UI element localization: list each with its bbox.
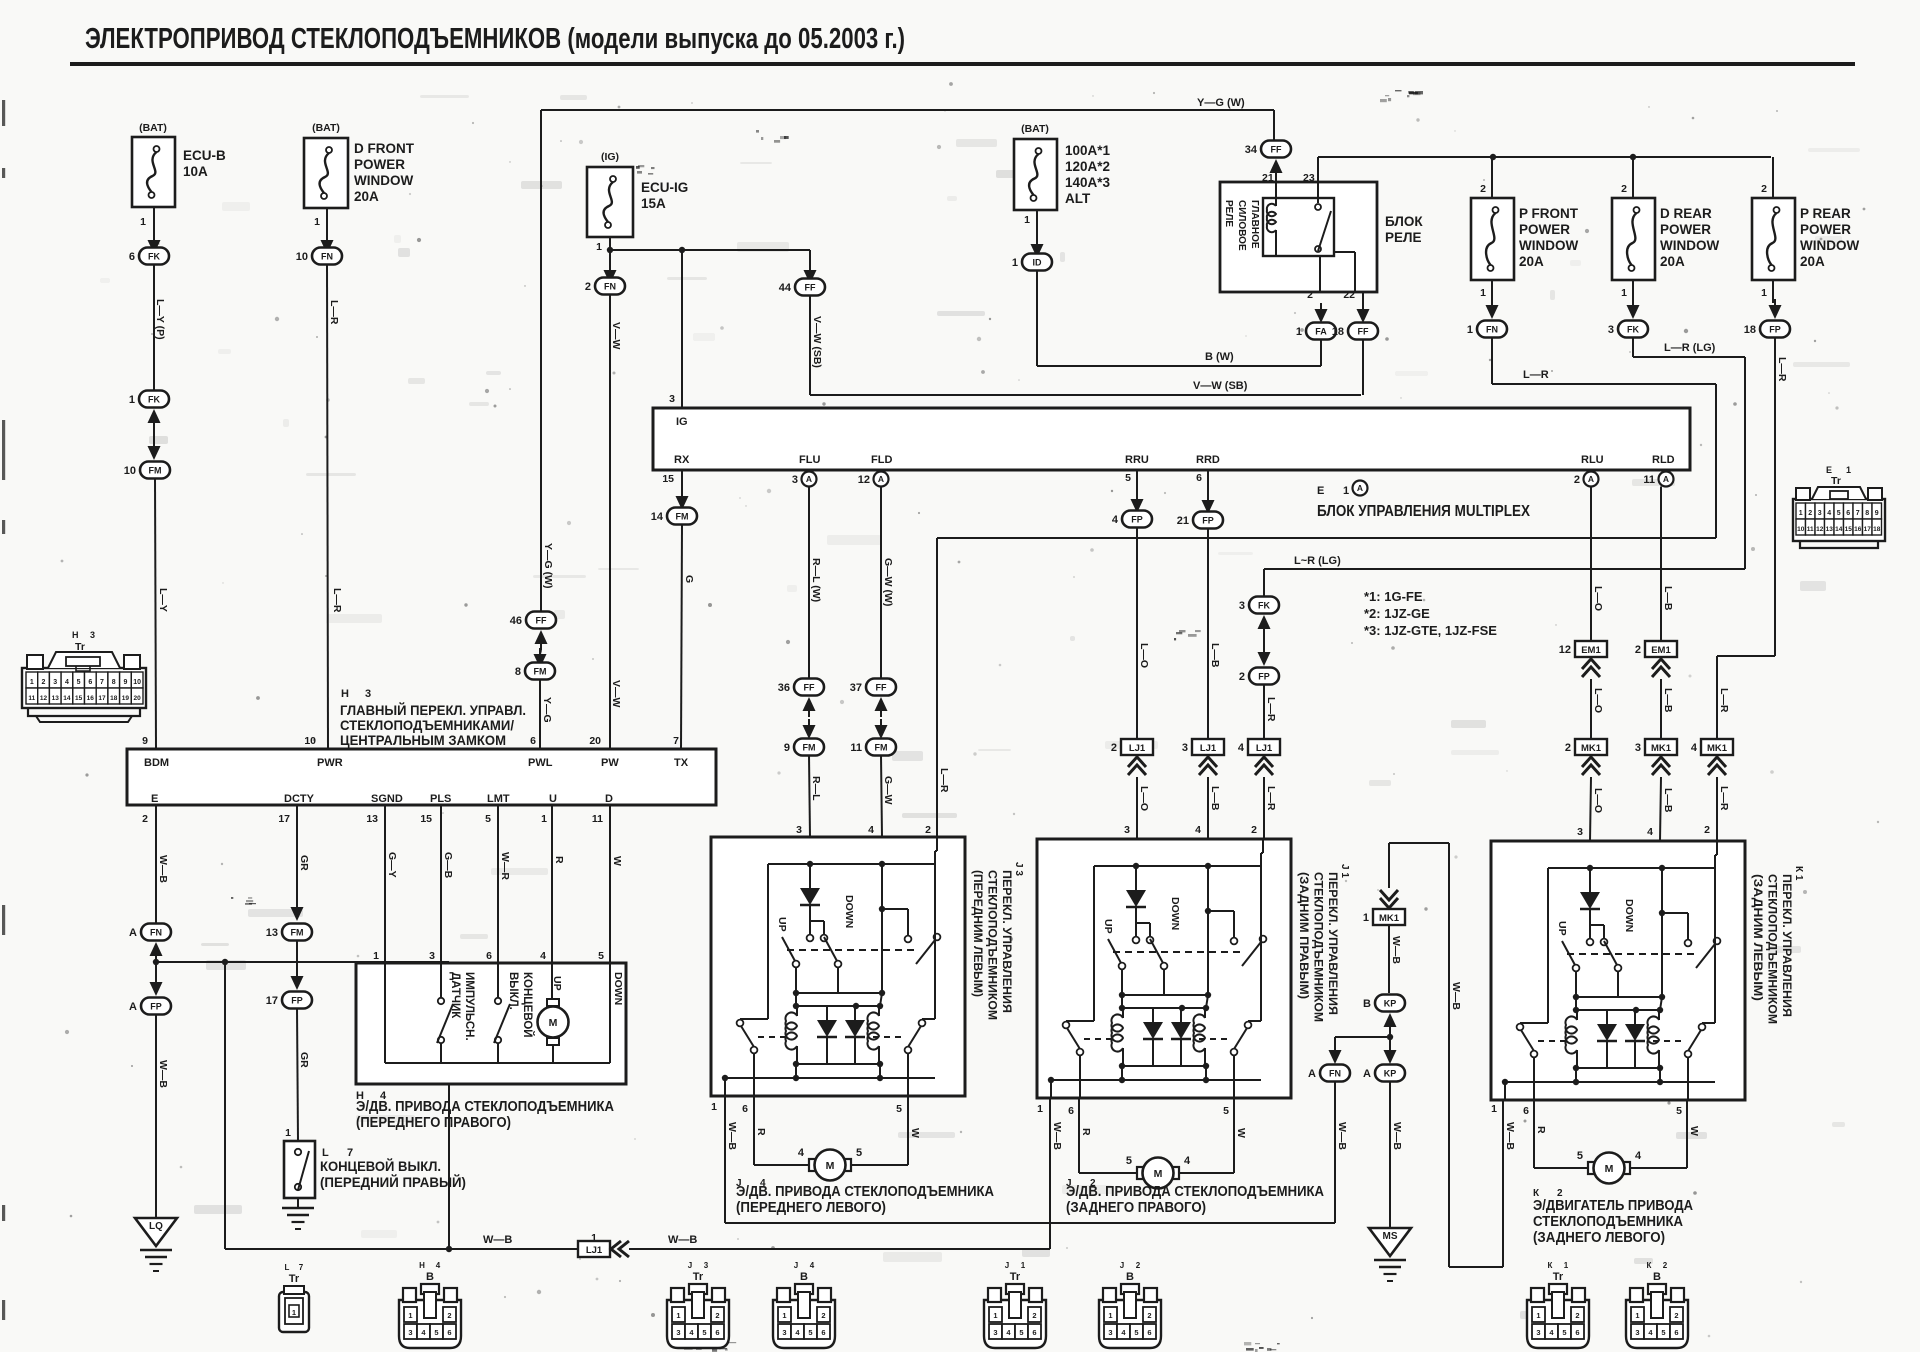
- svg-text:1: 1: [711, 1101, 717, 1113]
- svg-text:EM1: EM1: [1581, 645, 1601, 656]
- chevrons below 2 EM1: [1652, 659, 1670, 677]
- label RL switch vertical: [1751, 866, 1804, 1024]
- svg-text:A: A: [1588, 474, 1594, 484]
- svg-text:1: 1: [782, 1311, 786, 1320]
- arrow below B KP: [1384, 1013, 1397, 1033]
- wire L-R to RL switch pin 2: [1704, 777, 1730, 841]
- connector oval 36 FF: [778, 679, 824, 696]
- svg-text:Tr: Tr: [1553, 1271, 1564, 1283]
- svg-text:FF: FF: [536, 616, 547, 626]
- rear right window switch block: [1037, 839, 1291, 1098]
- svg-text:12: 12: [40, 695, 48, 702]
- svg-text:A: A: [1663, 474, 1669, 484]
- svg-text:FN: FN: [321, 252, 333, 262]
- wire L-R (LG) upper: [1633, 338, 1745, 358]
- svg-text:FA: FA: [1315, 327, 1327, 337]
- svg-text:14: 14: [1835, 526, 1843, 533]
- connector oval 10 FN: [296, 248, 342, 265]
- svg-text:ДАТЧИК: ДАТЧИК: [449, 972, 461, 1019]
- svg-text:3: 3: [1124, 824, 1130, 836]
- svg-text:5: 5: [1134, 1328, 1138, 1337]
- svg-text:1: 1: [1108, 1311, 1112, 1320]
- svg-text:J: J: [1005, 1261, 1009, 1270]
- svg-text:2: 2: [142, 813, 148, 825]
- svg-text:L—R: L—R: [1718, 688, 1730, 713]
- svg-text:POWER: POWER: [354, 157, 405, 172]
- arrow into 18 FF: [1357, 292, 1370, 323]
- svg-text:L—R: L—R: [1265, 697, 1277, 722]
- connector drawing H 3 Tr: [22, 630, 146, 722]
- multiplex pin FLU 3A: [792, 470, 817, 487]
- label FL motor: [736, 1178, 994, 1216]
- wire L-B to RR switch pin 4: [1195, 777, 1221, 839]
- svg-text:13: 13: [52, 695, 60, 702]
- wire 18FF to V-W (SB): [1362, 340, 1364, 396]
- svg-text:FP: FP: [1131, 515, 1143, 525]
- svg-text:18: 18: [110, 695, 118, 702]
- connector oval 17 FP: [266, 992, 312, 1009]
- wire B (W): [1037, 351, 1321, 366]
- svg-text:RLD: RLD: [1652, 454, 1675, 466]
- svg-text:8: 8: [1865, 510, 1869, 517]
- svg-text:L—R: L—R: [328, 300, 340, 325]
- connector drawing K1 Tr: [1527, 1261, 1589, 1348]
- limit switch front right: [284, 1141, 315, 1198]
- connector box 3 MK1: [1635, 739, 1677, 755]
- arrow into 14 FM: [676, 490, 689, 510]
- svg-text:M: M: [549, 1017, 558, 1029]
- svg-text:ПЕРЕКЛ. УПРАВЛЕНИЯ: ПЕРЕКЛ. УПРАВЛЕНИЯ: [1326, 872, 1340, 1015]
- arrow into 9 FM: [803, 717, 816, 739]
- svg-text:5: 5: [77, 679, 81, 686]
- svg-text:2: 2: [1635, 644, 1641, 656]
- svg-text:3: 3: [1536, 1328, 1540, 1337]
- svg-text:R—L: R—L: [810, 776, 822, 801]
- connector box 4 MK1: [1691, 739, 1733, 755]
- svg-text:1: 1: [596, 241, 602, 253]
- arrow into 2 FP: [1258, 646, 1271, 666]
- wire W-B rail left: [225, 1234, 578, 1252]
- svg-text:3: 3: [53, 679, 57, 686]
- svg-text:6: 6: [486, 950, 492, 962]
- arrow into 8 FM: [534, 648, 547, 668]
- connector oval 18 FP: [1744, 321, 1790, 338]
- svg-text:17: 17: [98, 695, 106, 702]
- wire 1FK to 10FM: [153, 429, 155, 446]
- label BLOK RELE: [1385, 214, 1423, 245]
- svg-text:W—B: W—B: [1051, 1122, 1063, 1150]
- label H4 motor block: [356, 1090, 614, 1131]
- master switch bottom pin numbers: [142, 813, 603, 825]
- svg-text:GR: GR: [298, 1052, 310, 1068]
- svg-text:WINDOW: WINDOW: [1660, 238, 1719, 253]
- label FL switch vertical: [971, 862, 1024, 1020]
- wire G-Y SGND: [373, 805, 398, 963]
- svg-text:FM: FM: [149, 466, 162, 476]
- svg-text:140A*3: 140A*3: [1065, 175, 1111, 190]
- wire W to RL pin 5: [1631, 1100, 1700, 1168]
- wire IG pin 3 of multiplex: [669, 250, 682, 408]
- connector oval 4 FP: [1112, 511, 1152, 528]
- svg-text:20: 20: [133, 695, 141, 702]
- wire to RR motor: [1079, 1172, 1136, 1174]
- wire L-O to RR switch pin 3: [1124, 777, 1150, 839]
- wire junction to 44 FF branch: [610, 247, 810, 253]
- svg-text:2: 2: [42, 679, 46, 686]
- motor RL window: [1577, 1150, 1642, 1184]
- svg-text:К 1: К 1: [1793, 866, 1804, 881]
- svg-text:16: 16: [1854, 526, 1862, 533]
- wire V-W (SB) horizontal: [810, 380, 1361, 395]
- label master switch: [340, 688, 526, 748]
- svg-text:2: 2: [1674, 1311, 1678, 1320]
- svg-text:13: 13: [266, 927, 278, 939]
- connector box 2 LJ1: [1111, 739, 1153, 755]
- svg-text:L—R: L—R: [1265, 786, 1277, 811]
- svg-text:6: 6: [742, 1103, 748, 1115]
- svg-text:2: 2: [1663, 1261, 1668, 1270]
- arrow into 1 ID: [1031, 238, 1044, 258]
- svg-text:20A: 20A: [354, 189, 379, 204]
- wire jog to 4 MK1: [1717, 656, 1775, 739]
- connector oval 2 FP: [1239, 668, 1279, 685]
- svg-text:LMT: LMT: [487, 793, 510, 805]
- svg-text:10: 10: [296, 251, 308, 263]
- svg-text:2: 2: [1480, 183, 1486, 195]
- svg-text:СТЕКЛОПОДЪЕМНИКОМ: СТЕКЛОПОДЪЕМНИКОМ: [986, 870, 1000, 1020]
- master switch top pin numbers: [142, 735, 679, 747]
- wire ALT fuse down: [1036, 210, 1038, 252]
- arrow below 36 FF: [803, 697, 816, 717]
- svg-text:L—R: L—R: [1523, 369, 1549, 381]
- svg-text:MS: MS: [1383, 1231, 1398, 1242]
- svg-text:15A: 15A: [641, 196, 666, 211]
- svg-text:1: 1: [1343, 485, 1349, 497]
- svg-text:1: 1: [676, 1311, 680, 1320]
- svg-text:34: 34: [1245, 144, 1258, 156]
- svg-text:FM: FM: [875, 743, 888, 753]
- connector drawing E 1 Tr: [1793, 465, 1885, 548]
- connector drawing H4 B: [399, 1261, 461, 1348]
- connector box 2 MK1: [1565, 739, 1607, 755]
- svg-text:L~R (LG): L~R (LG): [1294, 555, 1341, 567]
- svg-text:2: 2: [1307, 289, 1313, 301]
- svg-text:G—W (W): G—W (W): [882, 558, 894, 606]
- svg-text:FK: FK: [1627, 325, 1639, 335]
- wire 46FF to 8FM: [540, 650, 541, 654]
- svg-text:13: 13: [366, 813, 378, 825]
- svg-text:СТЕКЛОПОДЪЕМНИКА: СТЕКЛОПОДЪЕМНИКА: [1533, 1214, 1683, 1230]
- svg-text:W: W: [1235, 1128, 1247, 1138]
- svg-text:К: К: [1548, 1261, 1553, 1270]
- svg-text:20A: 20A: [1660, 254, 1685, 269]
- svg-text:4: 4: [1827, 510, 1831, 517]
- connector oval 13 FM: [266, 924, 312, 941]
- svg-text:L—B: L—B: [1662, 688, 1674, 713]
- multiplex control block: [653, 408, 1690, 470]
- wire W-B return drop: [224, 962, 226, 1249]
- svg-text:KP: KP: [1384, 1069, 1397, 1079]
- svg-text:1: 1: [1012, 257, 1018, 269]
- svg-text:FP: FP: [1258, 672, 1270, 682]
- svg-text:L—Y (P): L—Y (P): [154, 299, 166, 340]
- svg-text:4: 4: [436, 1261, 441, 1270]
- wire L-Y (P): [154, 265, 166, 391]
- svg-text:15: 15: [75, 695, 83, 702]
- relay bottom pin numbers: [1307, 289, 1355, 301]
- ground triangle LQ: [135, 1218, 177, 1246]
- svg-text:1: 1: [373, 950, 379, 962]
- wire L-O from RLU: [1591, 487, 1604, 642]
- wire R U: [540, 805, 565, 963]
- svg-text:(IG): (IG): [601, 151, 619, 163]
- svg-text:4: 4: [1184, 1155, 1191, 1167]
- svg-text:L—Y: L—Y: [157, 588, 169, 612]
- connector oval B KP: [1363, 995, 1405, 1012]
- svg-text:3: 3: [782, 1328, 786, 1337]
- connector oval 10 FM: [124, 462, 170, 479]
- wire W-B from FL pin 1: [725, 1096, 738, 1223]
- svg-text:(ЗАДНИМ ПРАВЫМ): (ЗАДНИМ ПРАВЫМ): [1297, 872, 1311, 999]
- svg-text:3: 3: [429, 950, 435, 962]
- svg-text:UP: UP: [1102, 919, 1114, 934]
- wire L-O from RRU: [1137, 528, 1150, 740]
- wire down to 44 FF: [809, 250, 811, 278]
- svg-text:B: B: [1363, 998, 1371, 1010]
- wire G to TX pin 7: [681, 525, 695, 750]
- rear left window switch block: [1491, 841, 1745, 1100]
- connector oval 2 FN: [585, 278, 625, 295]
- wire W to RR pin 5: [1180, 1098, 1247, 1173]
- svg-text:ECU-IG: ECU-IG: [641, 180, 688, 195]
- svg-text:Э/ДВИГАТЕЛЬ ПРИВОДА: Э/ДВИГАТЕЛЬ ПРИВОДА: [1533, 1198, 1693, 1214]
- connector oval 37 FF: [850, 679, 896, 696]
- fuse D FRONT POWER WINDOW 20A: [304, 122, 415, 228]
- svg-text:Y—G (W): Y—G (W): [1197, 97, 1245, 109]
- svg-text:L—O: L—O: [1592, 586, 1604, 611]
- wire L-R from 18FP: [1775, 338, 1788, 657]
- svg-text:3: 3: [1577, 826, 1583, 838]
- svg-text:V—W (SB): V—W (SB): [1193, 380, 1248, 392]
- wire R-L to FL switch pin 3: [796, 756, 822, 838]
- svg-text:DOWN: DOWN: [1623, 899, 1635, 932]
- svg-text:СТЕКЛОПОДЪЕМНИКАМИ/: СТЕКЛОПОДЪЕМНИКАМИ/: [340, 717, 514, 733]
- svg-text:44: 44: [779, 282, 792, 294]
- svg-text:ГЛАВНОЕ: ГЛАВНОЕ: [1249, 200, 1260, 249]
- svg-text:6: 6: [1846, 510, 1850, 517]
- chevrons right of LJ1: [611, 1241, 629, 1257]
- svg-text:6: 6: [715, 1328, 719, 1337]
- svg-text:4: 4: [1635, 1150, 1642, 1162]
- svg-text:5: 5: [1223, 1105, 1229, 1117]
- connector oval 6 FK: [129, 248, 169, 265]
- svg-text:*3: 1JZ-GTE, 1JZ-FSE: *3: 1JZ-GTE, 1JZ-FSE: [1364, 623, 1497, 638]
- fuse ECU-B 10A: [132, 122, 226, 228]
- svg-text:4: 4: [868, 824, 874, 836]
- svg-text:КОНЦЕВОЙ ВЫКЛ.: КОНЦЕВОЙ ВЫКЛ.: [320, 1157, 441, 1174]
- wire L-R to PWR pin 10: [327, 265, 343, 750]
- wire 1MK1 to B KP: [1389, 925, 1402, 993]
- svg-text:POWER: POWER: [1519, 222, 1570, 237]
- svg-text:6: 6: [1068, 1105, 1074, 1117]
- svg-text:ПЕРЕКЛ. УПРАВЛЕНИЯ: ПЕРЕКЛ. УПРАВЛЕНИЯ: [1780, 874, 1794, 1017]
- arrow into 10 FM: [148, 440, 161, 460]
- svg-text:POWER: POWER: [1800, 222, 1851, 237]
- svg-text:FP: FP: [291, 996, 303, 1006]
- svg-text:D: D: [605, 793, 613, 805]
- svg-text:6: 6: [1147, 1328, 1151, 1337]
- svg-text:L—R: L—R: [938, 768, 950, 793]
- svg-text:FF: FF: [805, 283, 816, 293]
- wire L-R down to FL switch pin 2: [925, 538, 950, 839]
- svg-text:1: 1: [1621, 287, 1627, 299]
- svg-text:15: 15: [662, 473, 674, 485]
- svg-text:ЦЕНТРАЛЬНЫМ ЗАМКОМ: ЦЕНТРАЛЬНЫМ ЗАМКОМ: [340, 732, 506, 748]
- svg-text:10: 10: [304, 735, 316, 747]
- svg-text:PW: PW: [601, 757, 619, 769]
- svg-text:LJ1: LJ1: [1256, 743, 1273, 754]
- svg-text:V—W (SB): V—W (SB): [811, 316, 823, 368]
- svg-text:(ПЕРЕДНЕГО ЛЕВОГО): (ПЕРЕДНЕГО ЛЕВОГО): [736, 1200, 886, 1216]
- svg-text:FP: FP: [1202, 516, 1214, 526]
- wire 34FF to relay pin 21: [1275, 179, 1277, 184]
- svg-text:MK1: MK1: [1707, 743, 1728, 754]
- wire W-B upper return horizontal: [725, 1222, 1335, 1224]
- wire W to FL pin 5: [852, 1096, 921, 1165]
- wire D FRONT fuse down: [326, 208, 328, 248]
- connector box 4 LJ1: [1238, 739, 1280, 755]
- svg-text:PWR: PWR: [317, 757, 343, 769]
- svg-text:RLU: RLU: [1581, 454, 1604, 466]
- svg-text:W: W: [909, 1128, 921, 1138]
- chevrons below 3 MK1: [1652, 757, 1670, 775]
- svg-text:1: 1: [30, 679, 34, 686]
- svg-text:2: 2: [1574, 474, 1580, 486]
- svg-text:MK1: MK1: [1379, 913, 1400, 924]
- svg-text:19: 19: [122, 695, 130, 702]
- arrow below 37 FF: [875, 697, 888, 717]
- svg-text:L—O: L—O: [1138, 786, 1150, 811]
- connector drawing L7 Tr: [279, 1263, 309, 1332]
- wire R from RL pin 6: [1534, 1100, 1547, 1168]
- svg-text:2: 2: [1251, 824, 1257, 836]
- svg-text:2: 2: [1621, 183, 1627, 195]
- svg-text:W—B: W—B: [157, 1060, 169, 1088]
- svg-text:3: 3: [1635, 1328, 1639, 1337]
- svg-text:1: 1: [1021, 1261, 1026, 1270]
- svg-text:5: 5: [1125, 472, 1131, 484]
- arrow up below 34 FF: [1270, 159, 1283, 179]
- svg-text:5: 5: [485, 813, 491, 825]
- svg-text:(ЗАДНЕГО ЛЕВОГО): (ЗАДНЕГО ЛЕВОГО): [1533, 1230, 1665, 1246]
- svg-text:9: 9: [123, 679, 127, 686]
- arrow into 44 FF: [804, 264, 817, 284]
- connector oval 8 FM: [515, 663, 555, 680]
- wire to junction: [153, 959, 159, 984]
- svg-text:17: 17: [278, 813, 290, 825]
- svg-text:L—R: L—R: [331, 588, 343, 613]
- svg-text:СТЕКЛОПОДЪЕМНИКОМ: СТЕКЛОПОДЪЕМНИКОМ: [1312, 872, 1326, 1022]
- svg-text:L: L: [285, 1263, 290, 1272]
- svg-text:5: 5: [434, 1328, 438, 1337]
- wire bus y157: [1318, 154, 1771, 160]
- svg-text:9: 9: [1875, 510, 1879, 517]
- svg-text:L—B: L—B: [1662, 788, 1674, 813]
- label RL motor: [1533, 1188, 1693, 1246]
- svg-text:GR: GR: [298, 855, 310, 871]
- svg-text:1: 1: [1480, 287, 1486, 299]
- front left window switch block: [711, 837, 965, 1096]
- svg-text:FLU: FLU: [799, 454, 820, 466]
- connector oval 18 FF relay: [1332, 323, 1378, 340]
- svg-text:DOWN: DOWN: [1169, 897, 1181, 930]
- connector oval 44 FF: [779, 279, 825, 296]
- svg-text:11: 11: [592, 813, 603, 825]
- svg-text:2: 2: [585, 281, 591, 293]
- connector box 1 LJ1 rail: [578, 1232, 610, 1257]
- svg-text:20A: 20A: [1800, 254, 1825, 269]
- connector drawing K2 B: [1626, 1261, 1688, 1348]
- arrow into B FP: [443, 976, 456, 996]
- svg-text:3: 3: [408, 1328, 412, 1337]
- arrow into 2 FN: [604, 264, 617, 284]
- connector oval A FN right: [1308, 1065, 1350, 1082]
- svg-text:FN: FN: [1329, 1069, 1341, 1079]
- rear right window switch block internal wiring: [1048, 839, 1267, 1098]
- svg-text:1: 1: [1296, 326, 1302, 338]
- svg-text:WINDOW: WINDOW: [354, 173, 413, 188]
- svg-text:FM: FM: [676, 512, 689, 522]
- connector oval 1 FK: [129, 391, 169, 408]
- svg-text:W—B: W—B: [1390, 936, 1402, 964]
- svg-text:FM: FM: [291, 928, 304, 938]
- svg-text:Э/ДВ. ПРИВОДА СТЕКЛОПОДЪЕМНИКА: Э/ДВ. ПРИВОДА СТЕКЛОПОДЪЕМНИКА: [1066, 1184, 1324, 1200]
- chevrons below 4 MK1: [1708, 757, 1726, 775]
- svg-text:11: 11: [850, 742, 862, 754]
- wire 13FM to 17FP: [296, 941, 298, 977]
- svg-text:6: 6: [1523, 1105, 1529, 1117]
- svg-text:(ПЕРЕДНИМ ЛЕВЫМ): (ПЕРЕДНИМ ЛЕВЫМ): [971, 870, 985, 997]
- svg-text:W—B: W—B: [483, 1234, 512, 1246]
- chevrons below 2 MK1: [1582, 757, 1600, 775]
- svg-text:5: 5: [1837, 510, 1841, 517]
- svg-text:J 1: J 1: [1339, 864, 1350, 878]
- svg-text:ВЫКЛ.: ВЫКЛ.: [507, 972, 519, 1010]
- fuse ALT 100A: [1014, 123, 1111, 226]
- svg-text:A: A: [1308, 1068, 1316, 1080]
- connector oval 3 FK lower: [1239, 597, 1279, 614]
- svg-text:12: 12: [858, 474, 870, 486]
- svg-text:4: 4: [65, 679, 69, 686]
- svg-text:R: R: [1535, 1126, 1547, 1134]
- connector box 12 EM1: [1559, 641, 1607, 657]
- connector oval 9 FM: [784, 739, 824, 756]
- svg-text:21: 21: [1177, 515, 1189, 527]
- svg-text:B: B: [1126, 1271, 1134, 1283]
- svg-text:6: 6: [88, 679, 92, 686]
- svg-text:3: 3: [1108, 1328, 1112, 1337]
- front left window switch block internal wiring: [722, 837, 941, 1096]
- connector oval 1 FA: [1296, 323, 1336, 340]
- svg-text:ID: ID: [1033, 258, 1043, 268]
- svg-text:L—B: L—B: [1662, 586, 1674, 611]
- wire ECU-IG fuse to junction: [607, 237, 613, 278]
- svg-text:3: 3: [1635, 742, 1641, 754]
- svg-text:TX: TX: [674, 757, 689, 769]
- svg-text:4: 4: [1647, 826, 1653, 838]
- wire junction row y962: [156, 959, 449, 965]
- svg-text:J: J: [794, 1261, 798, 1270]
